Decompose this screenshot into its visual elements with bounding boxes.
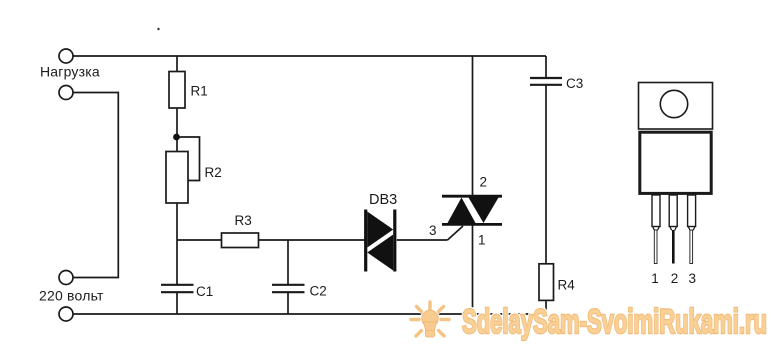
- svg-text:SdelaySam-SvoimiRukami.ru: SdelaySam-SvoimiRukami.ru: [462, 303, 767, 341]
- svg-text:3: 3: [429, 223, 437, 238]
- svg-text:3: 3: [689, 271, 697, 286]
- svg-text:1: 1: [478, 233, 486, 248]
- svg-text:R3: R3: [235, 213, 252, 228]
- svg-text:C3: C3: [566, 76, 583, 91]
- svg-text:C1: C1: [196, 284, 213, 299]
- svg-text:C2: C2: [310, 284, 327, 299]
- svg-text:1: 1: [651, 271, 659, 286]
- svg-text:Нагрузка: Нагрузка: [40, 64, 100, 80]
- svg-text:R1: R1: [191, 84, 208, 99]
- svg-text:2: 2: [671, 271, 679, 286]
- svg-text:R2: R2: [205, 165, 222, 180]
- svg-text:220 вольт: 220 вольт: [39, 288, 104, 304]
- svg-text:DB3: DB3: [369, 192, 397, 208]
- svg-text:2: 2: [480, 175, 488, 190]
- svg-text:R4: R4: [558, 278, 576, 293]
